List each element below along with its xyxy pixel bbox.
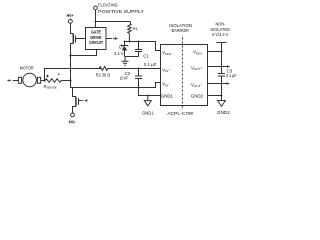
svg-text:3.1 V: 3.1 V <box>114 51 124 56</box>
svg-text:HV-: HV- <box>69 119 77 124</box>
svg-text:NON-: NON- <box>216 21 226 26</box>
svg-text:DRIVE: DRIVE <box>90 35 101 40</box>
svg-text:C1: C1 <box>143 54 149 59</box>
svg-text:HV+: HV+ <box>67 13 74 18</box>
svg-text:FLOATING: FLOATING <box>98 2 118 7</box>
svg-text:5 V/3.3 V: 5 V/3.3 V <box>212 32 229 37</box>
svg-text:D1: D1 <box>119 44 125 49</box>
svg-text:R1: R1 <box>133 26 139 31</box>
svg-text:0.1 µF: 0.1 µF <box>226 73 237 78</box>
svg-text:GND1: GND1 <box>142 110 154 115</box>
svg-text:R2 39 Ω: R2 39 Ω <box>96 72 111 77</box>
svg-text:MOTOR: MOTOR <box>20 66 34 71</box>
svg-text:GND1: GND1 <box>161 94 174 99</box>
svg-text:0.1 µF: 0.1 µF <box>144 62 157 67</box>
svg-text:GATE: GATE <box>91 29 101 34</box>
svg-text:10 nF: 10 nF <box>120 75 129 80</box>
svg-text:ACPL-C79#: ACPL-C79# <box>167 111 193 116</box>
svg-text:BARRIER: BARRIER <box>172 28 190 33</box>
svg-text:CIRCUIT: CIRCUIT <box>89 40 103 45</box>
svg-text:POSITIVE SUPPLY: POSITIVE SUPPLY <box>98 9 144 14</box>
svg-text:ISOLATED: ISOLATED <box>210 27 230 32</box>
svg-text:ISOLATION: ISOLATION <box>169 23 192 28</box>
svg-text:GND2: GND2 <box>217 110 231 115</box>
svg-text:GND2: GND2 <box>191 94 204 99</box>
